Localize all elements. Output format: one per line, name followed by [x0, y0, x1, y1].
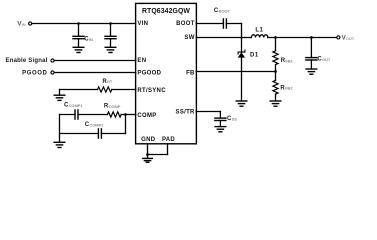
wire PGOOD — [54, 72, 136, 74]
svg-text:RT/SYNC: RT/SYNC — [137, 88, 166, 94]
resistor RFB1 — [275, 38, 277, 51]
node Enable terminal — [51, 59, 54, 62]
svg-text:PGOOD: PGOOD — [137, 70, 161, 76]
wire COMP stub — [126, 114, 136, 116]
ground CIN2 — [105, 47, 116, 52]
capacitor CCOMP2 — [98, 129, 101, 138]
ground COUT — [306, 69, 317, 74]
wire VIN rail — [32, 23, 136, 25]
wire BOOT segment — [196, 23, 223, 25]
resistor RFB2 — [275, 72, 277, 81]
svg-text:OUT: OUT — [322, 57, 331, 62]
capacitor CIN2 — [105, 36, 116, 38]
svg-text:VIN: VIN — [137, 21, 148, 27]
wire CCOMP2 left segment — [60, 133, 99, 135]
capacitor CIN stem — [78, 24, 80, 37]
node PGOOD terminal — [51, 71, 54, 74]
svg-text:FB2: FB2 — [285, 86, 293, 91]
diode D1 schottky — [241, 38, 243, 53]
wire RRT ground drop — [59, 90, 61, 96]
capacitor CCOMP1 — [75, 110, 78, 119]
inductor L1 — [251, 35, 267, 38]
svg-text:SW: SW — [184, 35, 194, 41]
junction dot COMP — [124, 113, 127, 116]
wire CCOMP2 right segment — [101, 133, 125, 135]
svg-text:BOOT: BOOT — [219, 9, 231, 14]
svg-text:PGOOD: PGOOD — [22, 70, 47, 76]
svg-text:BOOT: BOOT — [176, 21, 195, 27]
wire CBOOT drop to SW — [241, 24, 243, 38]
svg-text:D1: D1 — [250, 53, 259, 59]
svg-text:RT: RT — [107, 79, 113, 84]
ground RFB2 — [270, 101, 281, 106]
junction dot CIN2 — [109, 22, 112, 25]
wire SS/TR — [196, 111, 220, 113]
junction dot FB — [274, 70, 277, 73]
node VIN terminal — [29, 22, 32, 25]
svg-text:FB1: FB1 — [285, 58, 293, 63]
wire SS/TR drop — [219, 112, 221, 119]
svg-text:EN: EN — [137, 58, 146, 64]
wire COMP left rail — [59, 115, 61, 143]
capacitor COUT — [306, 58, 317, 60]
junction dot CIN — [77, 22, 80, 25]
wire RCOMP to CCOMP1 — [78, 114, 107, 116]
ground D1 — [236, 101, 247, 106]
svg-text:COMP: COMP — [137, 113, 156, 119]
wire CIN lower stem — [78, 39, 80, 48]
junction dot GND — [146, 153, 149, 156]
svg-text:COMP2: COMP2 — [89, 122, 104, 127]
wire L1 to output — [268, 37, 337, 39]
capacitor CBOOT — [223, 19, 226, 28]
svg-text:SS/TR: SS/TR — [176, 110, 196, 116]
svg-text:OUT: OUT — [346, 36, 355, 41]
junction dot L1 out — [274, 36, 277, 39]
svg-text:Enable Signal: Enable Signal — [6, 58, 48, 64]
svg-text:GND: GND — [141, 137, 156, 143]
wire GND-PAD link — [148, 154, 168, 156]
svg-text:PAD: PAD — [162, 137, 175, 143]
ground RRT — [54, 95, 65, 100]
capacitor CIN — [73, 36, 84, 38]
wire PAD pin drop — [167, 144, 169, 154]
node VOUT terminal — [337, 36, 340, 39]
ground COMP rail — [54, 142, 65, 147]
wire CCOMP2 riser — [125, 115, 127, 134]
ground CIN — [73, 47, 84, 52]
resistor RRT — [98, 87, 112, 92]
wire RT/SYNC left segment — [60, 89, 98, 91]
wire CIN2 lower stem — [110, 39, 112, 48]
wire COMP to RCOMP — [121, 114, 125, 116]
svg-text:COMP: COMP — [109, 104, 121, 109]
wire GND pin drop — [147, 144, 149, 154]
svg-text:FB: FB — [186, 70, 195, 76]
wire CSS lower stem — [219, 121, 221, 127]
wire SW to L1 — [196, 37, 251, 39]
ground GND/PAD — [143, 158, 153, 162]
wire CCOMP1 to rail — [60, 114, 76, 116]
svg-text:IN: IN — [22, 22, 26, 27]
svg-text:SS: SS — [232, 117, 238, 122]
svg-text:RTQ6342GQW: RTQ6342GQW — [142, 8, 190, 15]
capacitor COUT stem — [310, 38, 312, 58]
wire CBOOT to corner — [226, 23, 241, 25]
wire FB — [196, 71, 275, 73]
junction dot COUT tap — [310, 36, 313, 39]
capacitor CIN2 stem — [110, 24, 112, 37]
capacitor CSS — [215, 118, 226, 120]
svg-text:L1: L1 — [255, 27, 263, 33]
ground CSS — [215, 127, 226, 132]
wire GND ground stem — [147, 155, 149, 159]
svg-text:IN: IN — [89, 37, 93, 42]
svg-text:COMP1: COMP1 — [69, 103, 84, 108]
wire EN — [54, 60, 136, 62]
op-amp U1 : IC RTQ6342GQW box — [136, 3, 197, 143]
resistor RCOMP — [107, 112, 121, 117]
wire RT/SYNC right segment — [112, 89, 136, 91]
wire COUT lower stem — [310, 60, 312, 69]
